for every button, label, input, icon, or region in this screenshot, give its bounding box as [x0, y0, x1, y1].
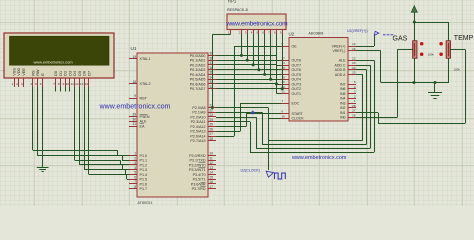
- wire LCD D4 to U1 P1.2: [75, 87, 130, 165]
- wire RP1 pin 1: [211, 34, 231, 109]
- svg-text:27: 27: [210, 132, 214, 136]
- svg-text:31: 31: [132, 122, 136, 126]
- svg-text:XTAL2: XTAL2: [140, 82, 151, 86]
- svg-text:IN0: IN0: [340, 116, 346, 120]
- wire RP1 pin 7 to P0.5 net: [269, 34, 272, 81]
- wire LCD RW to U1 P1.1: [38, 87, 130, 161]
- svg-text:ADD A: ADD A: [335, 73, 346, 77]
- power +5V arrow: [411, 6, 417, 22]
- svg-text:9: 9: [134, 94, 136, 98]
- svg-text:12: 12: [210, 161, 214, 165]
- svg-text:VDD: VDD: [17, 67, 21, 75]
- svg-text:26: 26: [210, 127, 214, 131]
- voltage probe node on P2.1 wire: [251, 110, 255, 114]
- svg-text:13: 13: [210, 166, 214, 170]
- svg-text:P2.6/A14: P2.6/A14: [190, 134, 205, 138]
- svg-text:VEE: VEE: [22, 68, 26, 76]
- svg-text:EA: EA: [140, 124, 145, 128]
- svg-text:IN3: IN3: [340, 101, 346, 105]
- svg-text:P2.1/A9: P2.1/A9: [192, 111, 205, 115]
- svg-text:IN6: IN6: [340, 87, 346, 91]
- wire U1 P0.2 to U2 OUT6: [216, 65, 281, 70]
- svg-text:8: 8: [134, 185, 136, 189]
- svg-text:100k: 100k: [454, 67, 461, 71]
- svg-text:P0.0/AD0: P0.0/AD0: [190, 54, 206, 58]
- U2 left pins: OE OUT8-OUT1 EOC START CLOCK: [281, 42, 304, 121]
- svg-text:TEMP: TEMP: [454, 35, 474, 42]
- svg-text:P0.4/AD4: P0.4/AD4: [190, 73, 206, 77]
- svg-text:23: 23: [210, 113, 214, 117]
- svg-text:EOC: EOC: [292, 102, 300, 106]
- svg-text:12: 12: [352, 42, 356, 46]
- svg-text:OUT3: OUT3: [292, 83, 301, 87]
- svg-text:4: 4: [30, 82, 32, 86]
- svg-text:www.embetronicx.com: www.embetronicx.com: [99, 104, 171, 111]
- svg-text:OUT6: OUT6: [292, 68, 301, 72]
- svg-text:IN1: IN1: [340, 111, 346, 115]
- svg-text:11: 11: [71, 82, 74, 86]
- svg-text:P3.1/TXD: P3.1/TXD: [190, 159, 206, 163]
- svg-text:25: 25: [210, 123, 214, 127]
- LCD pin labels: [13, 67, 92, 75]
- svg-text:P1.0: P1.0: [140, 154, 148, 158]
- potentiometer RV2 TEMP 100k: [439, 35, 473, 71]
- svg-text:ADD C: ADD C: [334, 63, 345, 67]
- wire LCD E to ground: [42, 87, 44, 167]
- svg-text:6: 6: [40, 82, 42, 86]
- LCD display LCD1 LM016L: [4, 33, 114, 78]
- svg-text:E: E: [41, 73, 45, 76]
- svg-text:P0.7/AD7: P0.7/AD7: [190, 87, 206, 91]
- wire U1 P0.1 to U2 OUT7: [216, 60, 281, 65]
- svg-text:18: 18: [132, 80, 136, 84]
- wire RP1 pin 2 to P0.0 net: [240, 34, 243, 57]
- wire U2 CLOCK to clock generator: [269, 118, 282, 170]
- svg-text:P3.6/WR: P3.6/WR: [191, 182, 206, 186]
- wire U1 P2.1 to U2 ADD B: [216, 70, 367, 145]
- svg-text:START: START: [292, 112, 304, 116]
- wire U1 P0.6 to U2 OUT2: [216, 84, 281, 89]
- svg-text:7: 7: [53, 82, 55, 86]
- svg-text:5: 5: [35, 82, 37, 86]
- svg-text:GAS: GAS: [393, 35, 408, 42]
- svg-text:IN5: IN5: [340, 92, 346, 96]
- wire U1 P0.4 to U2 OUT4: [216, 74, 281, 79]
- svg-text:P2.2/A10: P2.2/A10: [190, 115, 205, 119]
- svg-text:14: 14: [210, 171, 214, 175]
- svg-text:29: 29: [132, 113, 136, 117]
- svg-text:ALE: ALE: [140, 120, 148, 124]
- svg-text:VREF(-): VREF(-): [332, 49, 345, 53]
- wire U2 VREF(-) to ground rail: [356, 51, 381, 83]
- svg-text:www.embetronicx.com: www.embetronicx.com: [225, 21, 288, 28]
- svg-text:11: 11: [210, 156, 214, 160]
- svg-text:26: 26: [352, 113, 356, 117]
- U1 right pins: P0.0/AD0-P0.7/AD7, P2.0/A8-P2.7/A15, P3.0/RXD-P3.7/RD: [189, 52, 216, 192]
- ground rail under pots: [381, 81, 449, 84]
- svg-text:D0: D0: [54, 71, 58, 76]
- svg-text:D3: D3: [68, 71, 72, 76]
- svg-text:XTAL1: XTAL1: [140, 57, 151, 61]
- svg-text:1: 1: [11, 82, 13, 86]
- wire U1 P2.0 to U2 ADD A: [216, 75, 363, 141]
- svg-text:2: 2: [134, 156, 136, 160]
- wire U1 P0.5 to U2 OUT3: [216, 79, 281, 84]
- svg-text:28: 28: [352, 104, 356, 108]
- wire LCD D5 to U1 P1.3: [79, 87, 129, 170]
- wire U1 P2.3 to U2 ALE: [216, 60, 375, 152]
- svg-text:P1.4: P1.4: [140, 173, 148, 177]
- svg-text:OUT4: OUT4: [292, 78, 301, 82]
- svg-text:RP1: RP1: [228, 0, 237, 4]
- svg-text:5: 5: [134, 171, 136, 175]
- svg-text:17: 17: [210, 185, 214, 189]
- LCD pin numbers 1-14: [11, 82, 88, 86]
- svg-text:P1.1: P1.1: [140, 159, 148, 163]
- svg-text:22: 22: [210, 108, 214, 112]
- svg-text:IN2: IN2: [340, 106, 346, 110]
- svg-text:OUT8: OUT8: [292, 59, 301, 63]
- svg-text:P0.6/AD6: P0.6/AD6: [190, 82, 206, 86]
- wire RP1 pin 9 to P0.7 net: [281, 34, 284, 90]
- svg-text:10: 10: [66, 82, 70, 86]
- wire RP1 pin 3 to P0.1 net: [246, 34, 249, 62]
- svg-text:12: 12: [75, 82, 79, 86]
- svg-text:30: 30: [132, 118, 136, 122]
- terminal U2(VREF(+)): [347, 29, 393, 35]
- svg-text:1: 1: [134, 152, 136, 156]
- U1 left pin stubs/numbers/labels: [129, 55, 151, 191]
- svg-text:VREF(+): VREF(+): [332, 44, 346, 48]
- wire RV1 GAS wiper to U2 IN0: [356, 50, 413, 118]
- svg-text:RST: RST: [140, 96, 148, 100]
- svg-text:13: 13: [80, 82, 84, 86]
- wire LCD D6 to U1 P1.4: [84, 87, 129, 175]
- svg-text:8: 8: [58, 82, 60, 86]
- svg-text:24: 24: [210, 118, 214, 122]
- svg-text:PSEN: PSEN: [140, 115, 150, 119]
- svg-text:P3.7/RD: P3.7/RD: [192, 187, 206, 191]
- svg-text:P3.0/RXD: P3.0/RXD: [189, 154, 206, 158]
- svg-text:4: 4: [134, 166, 136, 170]
- wire power to GAS top and TEMP top: [413, 21, 449, 41]
- svg-text:IN7: IN7: [340, 82, 346, 86]
- svg-text:D4: D4: [73, 70, 77, 76]
- wire U1 P0.7 to U2 OUT1: [216, 89, 281, 94]
- svg-text:P2.7/A15: P2.7/A15: [190, 139, 205, 143]
- svg-text:D7: D7: [87, 71, 91, 76]
- ground symbol below pots: [428, 83, 442, 99]
- wire RP1 pin 8 to P0.6 net: [275, 34, 278, 85]
- svg-text:15: 15: [210, 175, 214, 179]
- svg-text:P0.3/AD3: P0.3/AD3: [190, 68, 206, 72]
- wire U1 P0.0 to U2 OUT8: [216, 55, 281, 60]
- svg-text:P0.2/AD2: P0.2/AD2: [190, 63, 206, 67]
- svg-text:ALE: ALE: [339, 59, 346, 63]
- wire RV1 GAS bottom to ground rail: [414, 58, 416, 82]
- svg-text:25: 25: [352, 71, 356, 75]
- svg-text:RW: RW: [36, 69, 40, 76]
- svg-text:RS: RS: [31, 70, 35, 76]
- svg-text:U2(CLOCK): U2(CLOCK): [241, 169, 260, 173]
- svg-text:RESPACK-8: RESPACK-8: [227, 8, 248, 12]
- svg-text:OUT7: OUT7: [292, 64, 301, 68]
- microcontroller U1 AT89C51: [131, 46, 209, 205]
- svg-text:OE: OE: [292, 44, 298, 48]
- svg-text:D6: D6: [83, 71, 87, 76]
- svg-text:U1: U1: [131, 46, 137, 51]
- svg-text:P2.5/A13: P2.5/A13: [190, 130, 205, 134]
- wire U2 VREF(+) to terminal: [356, 36, 375, 47]
- svg-text:P1.7: P1.7: [140, 187, 148, 191]
- svg-text:U2: U2: [289, 31, 295, 36]
- clock generator terminal U2(CLOCK): [241, 169, 286, 179]
- ADC U2 ADC0808: [289, 31, 349, 121]
- resistor pack RP1 RESPACK-8: [227, 0, 286, 29]
- svg-text:D2: D2: [64, 71, 68, 76]
- svg-text:P0.5/AD5: P0.5/AD5: [190, 78, 206, 82]
- svg-text:10: 10: [282, 114, 286, 118]
- wire U1 P2.6 to U2 OE: [216, 46, 281, 136]
- svg-text:2: 2: [16, 82, 18, 86]
- svg-text:P3.4/T0: P3.4/T0: [193, 173, 206, 177]
- svg-text:6: 6: [134, 175, 136, 179]
- svg-text:P1.2: P1.2: [140, 163, 148, 167]
- svg-text:9: 9: [63, 82, 65, 86]
- RP1 pin stubs and numbers 1-9: [228, 30, 282, 35]
- svg-text:P3.5/T1: P3.5/T1: [193, 178, 206, 182]
- svg-text:23: 23: [352, 61, 356, 65]
- svg-text:16: 16: [352, 47, 356, 51]
- wire U1 P2.5 to U2 EOC: [216, 103, 281, 131]
- svg-text:www.embetronicx.com: www.embetronicx.com: [291, 155, 347, 161]
- wire RP1 pin 5 to P0.3 net: [257, 34, 260, 71]
- svg-text:P1.3: P1.3: [140, 168, 148, 172]
- svg-text:3: 3: [21, 82, 23, 86]
- wire RV2 TEMP wiper to U2 IN1: [356, 50, 466, 124]
- LCD D0-D3 unconnected wire stubs: [56, 87, 70, 92]
- svg-text:P2.0/A8: P2.0/A8: [192, 106, 205, 110]
- svg-text:3: 3: [134, 161, 136, 165]
- ground symbol below LCD: [37, 168, 49, 172]
- U1 left pins: XTAL1 XTAL2 RST PSEN ALE EA P1.0-P1.7: [132, 59, 134, 189]
- svg-text:10: 10: [210, 152, 214, 156]
- svg-text:28: 28: [210, 137, 214, 141]
- svg-text:100k: 100k: [428, 53, 435, 57]
- svg-text:19: 19: [132, 55, 136, 59]
- wire LCD D7 to U1 P1.5: [89, 87, 130, 180]
- svg-text:P3.3/INT1: P3.3/INT1: [189, 168, 206, 172]
- LCD pin stubs 1-14: [15, 78, 89, 87]
- svg-text:CLOCK: CLOCK: [292, 117, 305, 121]
- svg-text:IN4: IN4: [340, 97, 346, 101]
- svg-text:P2.4/A12: P2.4/A12: [190, 125, 205, 129]
- wire LCD RS to U1 P1.0: [33, 87, 130, 156]
- svg-text:P2.3/A11: P2.3/A11: [191, 120, 206, 124]
- svg-text:14: 14: [85, 82, 89, 86]
- svg-text:www.embetronicx.com: www.embetronicx.com: [33, 60, 73, 65]
- svg-text:7: 7: [134, 180, 136, 184]
- svg-text:U2(VREF(+)): U2(VREF(+)): [347, 29, 368, 33]
- svg-text:P1.6: P1.6: [140, 182, 148, 186]
- svg-text:VSS: VSS: [13, 68, 17, 76]
- svg-text:OUT5: OUT5: [292, 73, 301, 77]
- svg-text:P0.1/AD1: P0.1/AD1: [190, 59, 206, 63]
- svg-text:OUT2: OUT2: [292, 87, 301, 91]
- wire U1 P2.4 to U2 START: [216, 114, 281, 127]
- wire RV2 TEMP bottom to ground rail: [448, 58, 450, 82]
- svg-text:AT89C51: AT89C51: [138, 201, 153, 205]
- svg-text:24: 24: [352, 66, 356, 70]
- wire U1 P0.3 to U2 OUT5: [216, 70, 281, 75]
- svg-text:ADC0808: ADC0808: [309, 31, 324, 35]
- svg-text:D1: D1: [59, 71, 63, 76]
- svg-text:27: 27: [352, 109, 356, 113]
- wire RP1 pin 6 to P0.4 net: [263, 34, 266, 76]
- wire U1 P2.2 to U2 ADD C: [216, 65, 371, 148]
- svg-text:22: 22: [352, 56, 356, 60]
- svg-text:16: 16: [210, 180, 214, 184]
- wire RP1 pin 4 to P0.2 net: [252, 34, 255, 66]
- potentiometer RV1 GAS 100k: [393, 35, 435, 58]
- svg-text:OUT1: OUT1: [292, 92, 301, 96]
- U2 right pins: VREF(+) VREF(-) ALE ADD C ADD B ADD A IN7-IN0: [332, 42, 356, 120]
- svg-text:P3.2/INT0: P3.2/INT0: [189, 163, 206, 167]
- svg-text:ADD B: ADD B: [335, 68, 346, 72]
- svg-text:P1.5: P1.5: [140, 178, 148, 182]
- svg-text:D5: D5: [78, 71, 82, 76]
- svg-text:21: 21: [282, 90, 286, 94]
